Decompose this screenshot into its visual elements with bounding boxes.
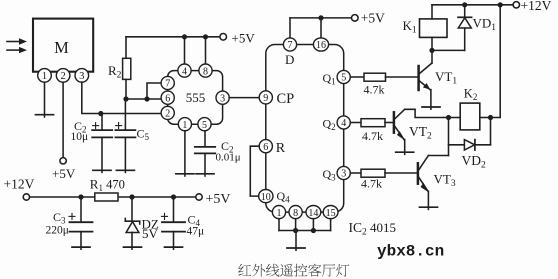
ground (C2) (93, 169, 111, 171)
+5V rail (4015) (290, 15, 351, 20)
svg-text:ybx8.cn: ybx8.cn (377, 243, 444, 261)
terminal +12V (513, 0, 552, 13)
terminal +12V (input) (4, 176, 35, 200)
svg-text:47μ: 47μ (187, 225, 205, 237)
svg-text:14: 14 (308, 208, 318, 219)
capacitor C5 (115, 99, 149, 172)
wire 4015 pin 1 drop (278, 219, 280, 231)
wire 555 pin 4 riser (184, 37, 186, 64)
ground (DZ) (124, 246, 142, 248)
IR receiver module M (33, 19, 93, 72)
wire 4015 ground bus (279, 230, 331, 232)
junction pin7 branch (144, 96, 149, 101)
svg-text:+12V: +12V (521, 0, 552, 13)
pin 15 of 4015 (323, 206, 338, 219)
wire M pin 3 to 555 pin 2 (82, 82, 162, 113)
svg-text:D: D (285, 52, 294, 67)
pin 5 of 4015 (Q1) (337, 70, 350, 83)
svg-text:IC2 4015: IC2 4015 (349, 220, 397, 238)
terminal +5V (rail out) (196, 192, 231, 207)
svg-text:M: M (54, 38, 69, 57)
wire M pin 2 to +5V terminal (62, 82, 64, 157)
pin 2 of 555 (161, 106, 174, 119)
resistor 4.7k (VT3 base) (361, 169, 385, 191)
wire resistor to VT3 base (385, 172, 417, 174)
ground (VT1 emitter) (422, 106, 440, 108)
relay K2 (449, 87, 491, 130)
pin 7 of 4015 (D) (283, 38, 296, 51)
pin 1 of 555 (178, 118, 191, 131)
junction R2/C5 (123, 96, 128, 101)
svg-text:CP: CP (277, 91, 295, 107)
wire 555 pin 3 to 4015 pin 9 (CP) (229, 97, 259, 99)
wire 4015 pin 14 drop (312, 219, 314, 231)
pin 3 of M (75, 69, 89, 83)
svg-text:0.01μ: 0.01μ (216, 151, 241, 163)
ground (C2 0.01u) (196, 173, 214, 175)
+12V rail (top right) (432, 4, 513, 6)
pin 4 of 555 (178, 64, 191, 77)
svg-text:15: 15 (326, 208, 336, 219)
pin 6 of 4015 (R) (259, 140, 272, 153)
junction K2 right / VD2 (488, 115, 493, 120)
svg-text:2: 2 (60, 71, 65, 82)
svg-text:5V: 5V (142, 226, 159, 241)
wire Q1 (pin 5) to base resistor (350, 76, 364, 78)
capacitor C2 10u (92, 114, 112, 173)
wire Q2 (pin 4) to base resistor (350, 122, 361, 124)
svg-text:4: 4 (182, 66, 187, 77)
pin 8 of 555 (199, 64, 212, 77)
wire resistor to VT1 base (386, 76, 418, 78)
wire 4015 pin 16 riser (320, 18, 322, 38)
ground (VT2 emitter) (396, 151, 414, 153)
terminal +5V (M pin 2) (52, 158, 76, 181)
wire K2 right to +12V rail (491, 5, 501, 118)
svg-text:+5V: +5V (206, 192, 231, 207)
svg-text:1: 1 (42, 71, 47, 82)
resistor R1 470 (90, 176, 125, 201)
pin 10 of 4015 (Q4) (259, 190, 273, 203)
pin 1 of 4015 (272, 206, 285, 219)
svg-text:8: 8 (203, 66, 208, 77)
pin 9 of 4015 (CP) (259, 91, 272, 104)
svg-text:3: 3 (220, 93, 225, 104)
transistor VT1 (419, 50, 458, 109)
ground (VT3 emitter) (420, 206, 438, 208)
wire 555 pin 7 branch (147, 83, 162, 99)
svg-text:16: 16 (316, 40, 326, 51)
pin 7 of 555 (161, 76, 174, 89)
svg-text:+5V: +5V (52, 166, 76, 181)
wire K1 bottom to VD1 anode (432, 49, 465, 51)
wire bus to ground (295, 231, 297, 251)
svg-text:4.7k: 4.7k (364, 83, 385, 97)
wire 555 pin 1 to ground (184, 131, 186, 176)
svg-text:1: 1 (277, 208, 282, 219)
wire 4015 pin 7 riser (289, 18, 291, 38)
svg-text:7: 7 (165, 79, 170, 90)
shift register IC2 4015 outline (266, 45, 344, 213)
junction bus pin 14 (311, 228, 316, 233)
transistor VT3 (418, 156, 456, 210)
wire 4015 pin 6 to pin 10 bracket (250, 146, 259, 196)
caption 红外线遥控客厅灯 (238, 264, 349, 277)
junction bus pin 8 (293, 228, 298, 233)
svg-text:4: 4 (341, 118, 346, 129)
transistor VT2 (394, 109, 449, 154)
svg-text:9: 9 (263, 93, 268, 104)
svg-text:5: 5 (202, 120, 207, 131)
terminal +5V (4015) (352, 10, 386, 25)
junction VD1 top (462, 2, 467, 7)
pin 3 of 555 (216, 91, 229, 104)
wire M pin 1 down (44, 82, 46, 117)
diode VD2 (449, 118, 491, 171)
svg-text:3: 3 (79, 71, 84, 82)
svg-text:+5V: +5V (361, 10, 385, 25)
svg-text:220μ: 220μ (46, 224, 69, 236)
relay K1 (403, 5, 448, 51)
capacitor C4 47u (162, 197, 205, 249)
ground (555 pin 1) (176, 173, 194, 175)
junction K2 left / VT2 collector / VD2 (446, 115, 451, 120)
wire VD2 left leg / VT3 collector node (448, 118, 450, 156)
ground (M pin 1) (36, 114, 54, 116)
svg-text:8: 8 (293, 208, 298, 219)
zener diode DZ 5V (125, 197, 159, 249)
pin 6 of 555 (161, 91, 174, 104)
resistor 4.7k (VT1 base) (364, 73, 386, 96)
junction C4 (171, 194, 176, 199)
pin 2 of M (56, 69, 70, 83)
junction C3 (78, 194, 83, 199)
svg-text:+12V: +12V (4, 176, 35, 191)
capacitor C2 0.01u (195, 131, 241, 176)
svg-text:+5V: +5V (232, 30, 256, 45)
terminal +5V (555 rail) (220, 30, 255, 45)
junction VT1 collector / K1 / VD1 (429, 48, 434, 53)
ground (C4) (165, 246, 183, 248)
resistor 4.7k (VT2 base) (361, 119, 385, 143)
wire R2 bottom to 555 pin 6 (126, 98, 162, 100)
ground (C5) (116, 169, 134, 171)
pin 14 of 4015 (306, 206, 321, 219)
timer IC 555 outline (168, 71, 223, 125)
wire +12V / +5V bottom rail (30, 196, 196, 198)
svg-text:R: R (276, 141, 286, 156)
pin 16 of 4015 (313, 38, 328, 51)
svg-text:4.7k: 4.7k (361, 177, 382, 191)
svg-text:4.7k: 4.7k (362, 129, 383, 143)
IR input arrows (7, 38, 27, 53)
resistor R2 (108, 37, 131, 99)
svg-text:5: 5 (341, 73, 346, 84)
junction M pin3 / C2 (98, 111, 103, 116)
svg-text:2: 2 (165, 109, 170, 120)
svg-text:1: 1 (182, 120, 187, 131)
junction K2 feed (498, 2, 503, 7)
svg-text:10: 10 (261, 192, 271, 203)
svg-text:6: 6 (263, 142, 268, 153)
ground (4015) (287, 247, 305, 249)
capacitor C3 220u (46, 197, 93, 249)
wire 555 pin 8 riser (205, 37, 207, 64)
svg-text:7: 7 (288, 40, 293, 51)
ground (C3) (72, 246, 90, 248)
svg-text:555: 555 (186, 90, 206, 105)
wire 4015 pin 15 drop (330, 219, 332, 231)
wire Q3 (pin 3) to base resistor (350, 172, 361, 174)
svg-text:3: 3 (341, 169, 346, 180)
svg-text:R1 470: R1 470 (90, 176, 125, 193)
pin 1 of M (38, 69, 52, 83)
pin 5 of 555 (198, 118, 211, 131)
diode VD1 (458, 5, 496, 51)
pin 4 of 4015 (Q2) (337, 116, 350, 129)
pin 8 of 4015 (289, 206, 302, 219)
svg-text:6: 6 (165, 93, 170, 104)
wire 4015 pin 8 drop (295, 219, 297, 231)
wire resistor to VT2 base (385, 122, 393, 124)
svg-text:10μ: 10μ (71, 131, 89, 143)
value label C2 10u (71, 119, 89, 143)
pin 3 of 4015 (Q3) (337, 166, 350, 179)
+5V rail (555) (126, 34, 220, 39)
junction DZ (129, 194, 134, 199)
